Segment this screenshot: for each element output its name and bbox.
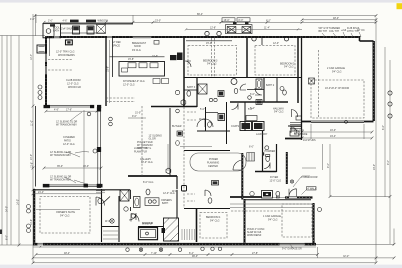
svg-text:PLANK FLR: PLANK FLR <box>134 151 147 154</box>
mud room wall y126 <box>288 125 302 127</box>
right short vertical x394 <box>393 229 395 245</box>
hall cabinet dark <box>218 91 224 97</box>
svg-text:12'-0" CLG: 12'-0" CLG <box>133 80 145 83</box>
svg-text:24'-0": 24'-0" <box>6 206 9 212</box>
rear porch column circle D <box>284 37 288 41</box>
svg-text:12'-0" CLG: 12'-0" CLG <box>270 180 282 183</box>
closet south wall y131 <box>197 130 230 132</box>
bath3 north wall y90 <box>184 89 197 91</box>
top right dimension line y19.8 <box>302 19 377 21</box>
yellow marker top right <box>397 3 402 9</box>
garage interior dashed rectangle <box>311 80 364 118</box>
porch beam line y40.8 <box>186 40 232 42</box>
pool bath bump-out box top-left <box>43 24 61 38</box>
powder sink circle <box>265 146 269 150</box>
his shower X box <box>120 190 129 201</box>
kitchen top wall y22.3 to y24 band <box>61 23 134 25</box>
butler sink circle <box>176 109 180 113</box>
butler dark cabinet <box>177 131 183 136</box>
rear porch column circle C <box>252 37 256 41</box>
big garage bottom wall left segment <box>302 121 311 123</box>
svg-text:W/ TRANSOM ABV: W/ TRANSOM ABV <box>56 124 77 127</box>
svg-text:16'-0": 16'-0" <box>83 165 89 168</box>
left margin dimension extension line x11 <box>10 36 12 246</box>
svg-text:23'-0": 23'-0" <box>155 20 161 23</box>
door gap bedroom3 <box>183 61 185 67</box>
dining wall x170 <box>169 108 171 176</box>
wic east wall x119 <box>118 196 120 242</box>
lanai bottom piers <box>43 184 50 188</box>
vestibule marker circles <box>124 207 128 211</box>
leader lines garage notes <box>322 32 361 37</box>
svg-text:9'4 CLG: 9'4 CLG <box>132 49 141 52</box>
svg-text:9'-0": 9'-0" <box>132 115 137 118</box>
entry double door opening <box>289 196 297 199</box>
wic shelf wall y226.5 <box>102 226 120 228</box>
foyer pedestal <box>276 191 280 196</box>
pool bath circle fixture <box>46 29 51 34</box>
svg-text:ABV TYP: ABV TYP <box>137 147 147 150</box>
svg-text:2'x4' SHLF: 2'x4' SHLF <box>61 28 73 31</box>
right margin marker circles <box>388 91 392 95</box>
garage door dim extensions <box>310 124 312 139</box>
svg-text:6'-0": 6'-0" <box>250 93 255 96</box>
owners door opening in bottom band <box>38 243 44 246</box>
svg-text:5'-0": 5'-0" <box>200 108 205 111</box>
garage step small rect <box>296 116 302 120</box>
club room left wall <box>45 36 47 106</box>
svg-text:12'-0" CLG: 12'-0" CLG <box>141 161 153 164</box>
wic diagonal door <box>103 197 111 204</box>
breakfast table circle <box>145 57 147 59</box>
right vertical dimension line x390 <box>389 60 391 244</box>
owners vanity sinks <box>148 200 151 203</box>
owners entry wall x130.5 <box>130 190 132 199</box>
svg-text:WINDOW: WINDOW <box>98 19 109 22</box>
mud cubby dark box <box>256 100 262 105</box>
bedroom2 top wall <box>230 36 302 38</box>
svg-text:LAUNDRY: LAUNDRY <box>256 133 268 136</box>
one car garage left wall <box>244 199 246 243</box>
closet wall x205.5 <box>205 107 207 131</box>
main left vertical dimension line x33 <box>32 14 34 263</box>
svg-text:9'4" CLG: 9'4" CLG <box>332 71 342 74</box>
sliding glass door double line <box>50 105 90 107</box>
bath2 marker circle <box>280 87 284 91</box>
bath2 west wall x264 <box>263 78 265 103</box>
door arc powder <box>264 163 270 169</box>
svg-text:9'4" CLG: 9'4" CLG <box>274 111 284 114</box>
svg-text:19'-4": 19'-4" <box>330 135 336 138</box>
svg-text:8'-0" CLG: 8'-0" CLG <box>143 181 153 184</box>
mud room south wall y138.5 <box>285 138 302 140</box>
covered entry west wall (furred) <box>286 152 288 184</box>
door arc bedroom3 <box>185 61 191 67</box>
top gray strip <box>0 0 402 3</box>
svg-text:WWM REINF: WWM REINF <box>247 234 262 237</box>
bottom wall heavy band (furred) <box>33 243 316 246</box>
bath2 east wall x277 <box>276 78 278 103</box>
center hall dashed line <box>183 107 185 208</box>
shower owners bath <box>139 228 158 240</box>
wall segment x151-183 <box>151 36 186 38</box>
left wing line y35.5 <box>0 35 45 37</box>
closet shelf dashes central <box>187 111 196 113</box>
left bottom tick line y245 <box>0 244 33 246</box>
one car garage door opening in bottom band <box>280 243 305 246</box>
garage door center circle <box>345 120 348 123</box>
right vertical dimension line x385 <box>384 47 386 197</box>
vanity line y112.5 <box>206 112 218 114</box>
oven tower dark <box>170 55 177 60</box>
entry marker circle <box>290 180 293 183</box>
garage house wall x302 <box>301 37 303 140</box>
bed4 north wall y208.5 <box>184 208 230 210</box>
svg-text:BATH: BATH <box>53 30 59 33</box>
club room ceiling dashed lines <box>48 59 72 61</box>
owners bath tub <box>134 197 141 208</box>
svg-text:9'4" CLG: 9'4" CLG <box>210 220 220 223</box>
gallery south wall y176 <box>128 175 177 177</box>
top overall dimension line y14.7 <box>35 15 377 17</box>
door arc owners entry <box>131 214 139 222</box>
left wall window 1 <box>45 54 47 62</box>
svg-text:12'-0" CLG: 12'-0" CLG <box>123 84 135 87</box>
island stools <box>128 63 136 68</box>
bedrooms dividing wall x247 <box>246 37 248 78</box>
svg-text:17'-6": 17'-6" <box>66 109 72 112</box>
porch column circle B <box>217 31 221 35</box>
bath2 bowl circle <box>231 79 237 85</box>
central toilet 2 <box>208 122 212 127</box>
bottom footing line y247 <box>33 246 316 248</box>
hexagon door symbol hall <box>181 100 186 106</box>
main rear wall band continues with window gaps <box>133 36 151 38</box>
svg-text:11'-4": 11'-4" <box>264 27 270 30</box>
water heater box <box>182 186 187 192</box>
svg-text:NOOK: NOOK <box>134 45 141 48</box>
svg-text:35'-0": 35'-0" <box>57 165 63 168</box>
svg-text:9'4" CLG: 9'4" CLG <box>207 63 217 66</box>
hall closet wall x245 <box>244 102 246 131</box>
svg-text:12'-4": 12'-4" <box>30 54 33 60</box>
door arc hall closet <box>233 160 243 170</box>
svg-text:16'-0"x8'-0" OH DOOR: 16'-0"x8'-0" OH DOOR <box>325 87 349 90</box>
central bath toilet <box>187 91 191 96</box>
right lower line y244.3 <box>312 243 394 245</box>
svg-text:8'-2": 8'-2" <box>266 20 271 23</box>
pool bath inner partition <box>53 24 55 38</box>
lanai interior dim line y111 <box>46 110 97 112</box>
walk note box <box>307 187 317 190</box>
hall bath toilet <box>283 90 287 95</box>
svg-text:CENTER: CENTER <box>208 165 218 168</box>
pantry corridor wall x112.5 <box>112 37 114 77</box>
svg-text:8'-0": 8'-0" <box>382 125 385 130</box>
wic shelves <box>96 190 105 192</box>
svg-text:BD TYP: BD TYP <box>319 30 328 33</box>
his bath arc <box>205 190 211 196</box>
powder west wall x262.5 <box>262 131 264 172</box>
covered entry south wall (furred) <box>285 196 313 198</box>
door arc wc <box>129 213 136 220</box>
svg-text:W.I.C.: W.I.C. <box>199 118 206 121</box>
pantry cross shelves <box>97 25 106 34</box>
front walk lines <box>302 167 316 169</box>
foyer marker circle <box>250 192 254 196</box>
bath2 sink <box>248 96 252 100</box>
svg-text:BUTLER: BUTLER <box>172 125 182 128</box>
svg-text:9'4" CLG: 9'4" CLG <box>268 219 278 222</box>
svg-text:WOOD BEAMS: WOOD BEAMS <box>58 54 75 57</box>
svg-text:2'-0": 2'-0" <box>48 19 53 22</box>
lanai marker circle <box>93 149 97 153</box>
bottom vertical x317.5 <box>317 247 319 258</box>
wic toilet <box>98 198 102 203</box>
svg-text:12'-8": 12'-8" <box>30 162 33 168</box>
lanai interior dim line y168 <box>44 167 101 169</box>
kitchen counter line y33 <box>61 32 106 34</box>
wall segment x186-230 <box>186 36 230 38</box>
svg-text:COATS: COATS <box>231 125 239 128</box>
owners shower tiled <box>164 218 179 241</box>
bottom overall dimension line y262.8 <box>33 262 376 264</box>
svg-text:96'-0": 96'-0" <box>192 255 198 258</box>
wic west wall x101.5 <box>101 189 103 242</box>
svg-text:COL TYP: COL TYP <box>329 30 340 33</box>
svg-text:24'-0": 24'-0" <box>30 154 33 160</box>
sliding door wall piers y106 <box>44 105 51 108</box>
svg-text:16'-0": 16'-0" <box>224 19 230 22</box>
powder south wall y171.5 <box>255 171 277 173</box>
door arc foyer double doors <box>289 189 297 197</box>
svg-text:48'-0": 48'-0" <box>333 17 339 20</box>
girder truss dashed pair bedroom3 <box>211 38 213 77</box>
entry porch X-braced structure <box>226 25 253 34</box>
svg-text:10'-6": 10'-6" <box>152 55 158 58</box>
bed4 dashed ceiling rect <box>200 213 227 239</box>
house middle west wall x106 <box>105 37 107 106</box>
porch column circle A <box>205 31 209 35</box>
svg-text:7'-10": 7'-10" <box>151 252 157 255</box>
svg-text:8'-0": 8'-0" <box>239 19 244 22</box>
wic shelf ticks <box>182 229 195 240</box>
svg-text:14'-0": 14'-0" <box>17 199 20 205</box>
hallway north wall y102 <box>230 101 288 103</box>
bedroom3 dashed ceiling rect <box>188 46 237 76</box>
svg-text:20'-0": 20'-0" <box>373 164 376 170</box>
lanai right wall posts <box>97 107 101 112</box>
kitchen counter edge <box>109 56 164 58</box>
svg-text:BATH 2: BATH 2 <box>266 84 275 87</box>
bedrooms south wall y77.5 <box>184 77 302 79</box>
laundry appliances <box>240 122 252 131</box>
svg-text:6'-0": 6'-0" <box>249 146 254 149</box>
wall door gap pool bath <box>54 36 60 38</box>
lanai left edge <box>35 106 37 187</box>
lanai inner dim line y194 <box>33 193 101 195</box>
svg-text:BATH 3: BATH 3 <box>187 86 196 89</box>
owners wing top wall y189 <box>33 189 130 191</box>
dim vertical x168 <box>167 144 169 171</box>
svg-text:9'-2": 9'-2" <box>387 160 390 165</box>
garage bottom dim y132 <box>302 131 372 133</box>
central hall wall x183 <box>183 37 185 107</box>
svg-text:9'4" CLG: 9'4" CLG <box>60 215 70 218</box>
hall closet hangers <box>247 153 255 162</box>
one car garage dashed rectangle <box>282 204 312 237</box>
svg-text:86'-4": 86'-4" <box>197 13 203 16</box>
bath2 tub <box>256 79 262 89</box>
powder east wall x276.5 <box>276 144 278 172</box>
owners bath toilet <box>146 189 150 195</box>
door arc entry hall <box>96 197 105 206</box>
oven box 1 <box>73 26 80 34</box>
kitchen big island <box>119 62 165 77</box>
left margin dimension extension line x2 <box>1 36 3 246</box>
garage top jog vertical <box>359 36 361 41</box>
svg-text:4' WALK: 4' WALK <box>307 187 317 190</box>
entry steps lines <box>230 203 312 205</box>
central shower dark <box>218 114 225 121</box>
svg-text:2x4 STUDS: 2x4 STUDS <box>303 139 316 142</box>
garage overhead door double line <box>311 120 364 122</box>
owners wall marker circles <box>27 205 31 209</box>
owners inner dim line <box>36 209 80 211</box>
his bath toilet <box>208 198 212 203</box>
door arc mud <box>291 127 297 133</box>
svg-text:POWDER: POWDER <box>265 150 276 153</box>
laundry counter <box>246 116 257 121</box>
svg-text:15'-0": 15'-0" <box>206 42 212 45</box>
left margin dimension extension line x19 <box>18 36 20 246</box>
svg-text:12'-0" CLG: 12'-0" CLG <box>63 143 75 146</box>
svg-text:31'-0": 31'-0" <box>135 112 141 115</box>
powder vanity block <box>262 152 264 155</box>
right vertical dimension line x376 <box>375 18 377 264</box>
door arc bedroom2 <box>255 88 262 95</box>
svg-text:5'-4": 5'-4" <box>250 107 255 110</box>
door circles pair <box>109 117 113 121</box>
owners bath heavy pier <box>162 228 166 233</box>
fireplace niche left <box>37 45 46 53</box>
boxed labels center <box>153 79 160 84</box>
svg-text:21'-4": 21'-4" <box>38 191 44 194</box>
garage bottom dim y138 <box>302 137 372 139</box>
owners vanity counter <box>145 198 159 206</box>
rotated dim text left <box>30 54 390 225</box>
svg-text:12'-8": 12'-8" <box>210 27 216 30</box>
central bath sinks <box>209 98 212 101</box>
foyer south wall <box>230 196 262 198</box>
serving marker circle <box>175 90 179 94</box>
svg-text:W/ TRANSOM ABV: W/ TRANSOM ABV <box>50 179 71 182</box>
hers vanity dark <box>212 181 219 186</box>
bath3 east wall x197 <box>196 78 198 108</box>
svg-text:15'-8": 15'-8" <box>106 66 109 72</box>
owners wc sink <box>147 201 149 203</box>
bath wall x226.5 <box>226 102 228 144</box>
bed4 west wall x196.5 <box>196 209 198 243</box>
dim line y146.5 <box>180 146 212 148</box>
garage top wall <box>302 36 360 38</box>
svg-text:WOOD FLR: WOOD FLR <box>68 86 81 89</box>
garage top dim line <box>273 196 310 198</box>
hexagon door symbol gallery <box>166 168 171 174</box>
svg-text:W/ TRANSOM ABV: W/ TRANSOM ABV <box>50 154 71 157</box>
left margin symbol circles <box>38 85 42 89</box>
svg-text:4'-6": 4'-6" <box>63 19 68 22</box>
lanai right wall double line <box>97 108 99 186</box>
left wall window 2 <box>45 66 47 74</box>
svg-text:4'-9": 4'-9" <box>54 109 59 112</box>
bottom dimension line y254.5 <box>36 254 318 256</box>
club room cabinet line <box>49 38 51 56</box>
main rear wall band y36-38 left part <box>45 36 133 38</box>
oven box 2 <box>87 26 94 34</box>
bottom marker circles row <box>126 247 222 251</box>
bottom gray strip <box>0 265 402 268</box>
top sub dimension line y22.3 <box>44 21 376 23</box>
bedroom2 right wall x298 <box>297 37 299 103</box>
garage top jog horizontal <box>360 40 374 42</box>
island sink <box>122 68 128 72</box>
svg-text:11'-0": 11'-0" <box>30 120 33 126</box>
svg-text:W.I.C.: W.I.C. <box>105 220 112 223</box>
secondary left vertical dim x35.5 <box>35 14 37 36</box>
top extension verticals <box>35 15 37 23</box>
leader line dble door <box>293 177 301 187</box>
svg-text:BD EA SIDE: BD EA SIDE <box>294 133 308 136</box>
foyer north walls y150.5 <box>184 150 230 152</box>
svg-text:MAKE-UP: MAKE-UP <box>142 223 153 226</box>
svg-text:9'-0" GARAGE DR: 9'-0" GARAGE DR <box>282 248 302 251</box>
flex room racetrack <box>190 153 246 171</box>
svg-text:9'-2": 9'-2" <box>327 163 330 168</box>
owners closet dashes <box>187 193 195 195</box>
svg-text:12'-0": 12'-0" <box>273 42 279 45</box>
leader lanai notes <box>74 152 89 184</box>
bedroom2 closet wall x262 <box>261 38 263 45</box>
owners wing left wall <box>33 189 35 245</box>
attic access boxes <box>309 78 315 84</box>
big garage bottom wall right segment <box>364 121 374 123</box>
dining dim line y118 <box>128 117 146 119</box>
leader strokes lanai <box>64 112 82 183</box>
kitchen island <box>66 40 73 45</box>
svg-text:9'4" CLG: 9'4" CLG <box>284 66 294 69</box>
door arc bath2 <box>240 84 246 90</box>
powder toilet <box>266 156 270 161</box>
lanai bottom wall sliders <box>44 184 102 186</box>
one car garage marker circle <box>318 208 322 212</box>
foyer inlay <box>262 191 273 199</box>
owners bath wall y226.5 <box>138 226 163 228</box>
butler toilet <box>176 141 180 146</box>
one car garage right wall (furred) <box>312 203 314 244</box>
kitchen sink in island <box>154 41 159 45</box>
dining truss dashed x142 <box>141 106 143 176</box>
svg-text:SPACE: SPACE <box>112 45 120 48</box>
flex foyer furred wall x242.3 <box>241 153 243 200</box>
leader garage door note <box>290 244 293 248</box>
svg-text:4'-0": 4'-0" <box>30 18 35 21</box>
mud bench <box>290 131 299 136</box>
one car garage top wall <box>245 199 312 201</box>
kitchen floor dashes <box>106 97 135 99</box>
step treads to garage <box>290 123 302 129</box>
right mid tick line y196.5 <box>330 196 390 198</box>
